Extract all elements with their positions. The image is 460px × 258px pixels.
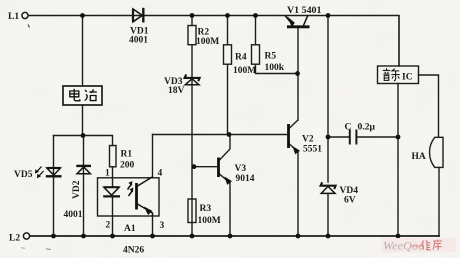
svg-text:R2: R2: [198, 28, 210, 38]
svg-text:L1: L1: [8, 12, 19, 22]
svg-text:VD5: VD5: [14, 170, 33, 180]
svg-text:HA: HA: [412, 152, 426, 162]
svg-text:VD4: VD4: [340, 186, 359, 196]
svg-text:A1: A1: [124, 224, 136, 234]
svg-text:5551: 5551: [303, 145, 322, 155]
svg-text:4: 4: [158, 169, 163, 179]
svg-text:R4: R4: [235, 53, 247, 63]
svg-text:2: 2: [106, 221, 111, 231]
svg-text:IC: IC: [402, 73, 413, 83]
svg-text:100M: 100M: [198, 216, 221, 226]
svg-text:0.2μ: 0.2μ: [358, 123, 376, 133]
svg-text:100M: 100M: [233, 66, 256, 76]
svg-text:3: 3: [160, 221, 165, 231]
svg-text:100k: 100k: [265, 63, 285, 73]
svg-text:18V: 18V: [168, 86, 185, 96]
svg-text:200: 200: [120, 161, 135, 171]
svg-text:V3: V3: [235, 164, 247, 174]
svg-text:C: C: [345, 123, 352, 133]
svg-text:V2: V2: [302, 135, 314, 145]
svg-text:4001: 4001: [64, 210, 83, 220]
svg-text:6V: 6V: [344, 196, 356, 206]
svg-text:100M: 100M: [196, 37, 219, 47]
svg-text:L2: L2: [9, 234, 20, 244]
svg-text:R1: R1: [121, 150, 133, 160]
svg-text:9014: 9014: [236, 174, 255, 184]
svg-text:R5: R5: [265, 52, 277, 62]
svg-text:4001: 4001: [129, 36, 148, 46]
svg-text:R3: R3: [200, 204, 212, 214]
svg-text:VD2: VD2: [72, 180, 82, 199]
svg-text:V1 5401: V1 5401: [287, 6, 322, 16]
svg-text:4N26: 4N26: [123, 246, 144, 256]
svg-text:1: 1: [105, 169, 110, 179]
